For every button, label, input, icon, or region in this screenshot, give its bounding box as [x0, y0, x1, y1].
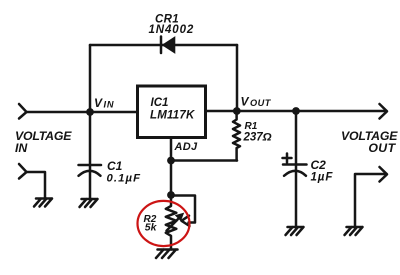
svg-text:V: V [241, 94, 250, 108]
svg-text:LM117K: LM117K [150, 110, 195, 122]
svg-text:OUT: OUT [250, 98, 272, 108]
wire top rail right drop to VOUT [236, 45, 239, 111]
junction VIN node [86, 108, 94, 116]
pin label Vout [241, 94, 272, 108]
capacitor C1 [79, 112, 102, 199]
input terminal arrowhead [19, 104, 27, 119]
junction wiper node [167, 191, 175, 199]
wire VOUT output line [206, 110, 387, 113]
ground input terminal arrowhead [19, 164, 27, 179]
resistor R1 [233, 111, 240, 161]
label VOLTAGE OUT [341, 129, 398, 155]
svg-text:R1: R1 [245, 121, 258, 132]
op-amp box IC1 [138, 86, 206, 138]
svg-text:C1: C1 [107, 159, 123, 173]
svg-text:IN: IN [15, 141, 28, 155]
svg-text:V: V [94, 96, 103, 110]
svg-text:5k: 5k [145, 222, 158, 234]
svg-text:ADJ: ADJ [174, 141, 198, 153]
capacitor C2 [283, 111, 307, 227]
svg-text:OUT: OUT [368, 141, 396, 155]
red highlight circle around R2 [138, 201, 190, 246]
wire VIN node up to top rail [89, 45, 92, 112]
ground below C2 [286, 227, 304, 235]
potentiometer R2 [166, 195, 184, 250]
ground below input terminal [34, 199, 52, 207]
ground below output terminal [345, 227, 363, 235]
svg-text:IC1: IC1 [151, 97, 169, 109]
ground output terminal wire [355, 174, 387, 227]
junction ADJ node [167, 157, 175, 165]
junction VOUT node [233, 107, 241, 115]
ground output terminal arrowhead [380, 167, 388, 182]
junction C2 node [292, 107, 300, 115]
svg-text:C2: C2 [311, 158, 327, 172]
wiper arrowhead [182, 216, 190, 226]
wire ADJ pin down [170, 138, 173, 195]
label VOLTAGE IN [15, 129, 72, 155]
svg-text:0.1µF: 0.1µF [107, 172, 142, 184]
svg-text:IN: IN [104, 99, 115, 109]
svg-text:237Ω: 237Ω [243, 131, 272, 143]
output arrowhead [380, 104, 388, 119]
svg-text:1N4002: 1N4002 [149, 24, 195, 36]
wire input line to IC1 Vin [27, 111, 138, 114]
ground below R2 [156, 250, 178, 259]
wire wiper connection [171, 196, 195, 223]
ground input terminal wire [27, 172, 46, 199]
svg-text:1µF: 1µF [311, 171, 334, 183]
pin label Vin [94, 96, 114, 110]
diode CR1 [161, 37, 175, 54]
ground below C1 [80, 199, 98, 207]
wire top rail [90, 44, 237, 47]
wire R1 bottom to ADJ node [171, 159, 237, 162]
